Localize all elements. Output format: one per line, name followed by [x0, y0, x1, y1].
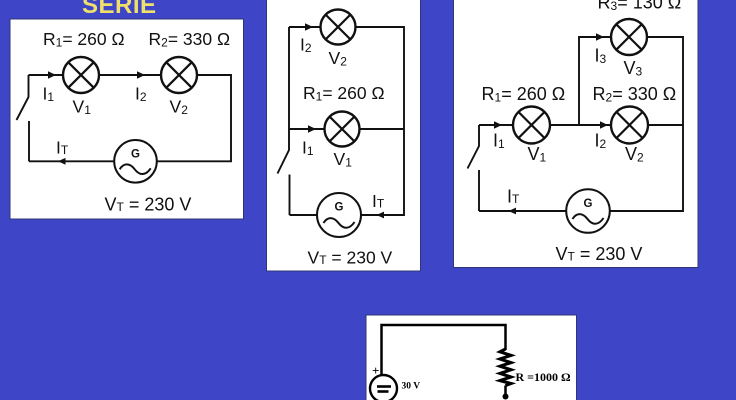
- svg-text:SERIE: SERIE: [82, 0, 157, 19]
- svg-text:+: +: [372, 363, 379, 378]
- svg-text:R2= 330 Ω: R2= 330 Ω: [149, 29, 231, 50]
- svg-text:R2= 330 Ω: R2= 330 Ω: [593, 84, 677, 105]
- svg-text:G: G: [131, 149, 140, 161]
- svg-text:G: G: [335, 202, 344, 214]
- svg-text:R3= 130 Ω: R3= 130 Ω: [598, 0, 682, 13]
- svg-text:R1= 260 Ω: R1= 260 Ω: [482, 84, 566, 105]
- svg-text:30 V: 30 V: [402, 382, 421, 392]
- svg-text:R =1000 Ω: R =1000 Ω: [516, 370, 572, 384]
- svg-text:G: G: [584, 198, 593, 210]
- svg-text:R1= 260 Ω: R1= 260 Ω: [43, 29, 125, 50]
- svg-text:R1= 260 Ω: R1= 260 Ω: [303, 83, 385, 104]
